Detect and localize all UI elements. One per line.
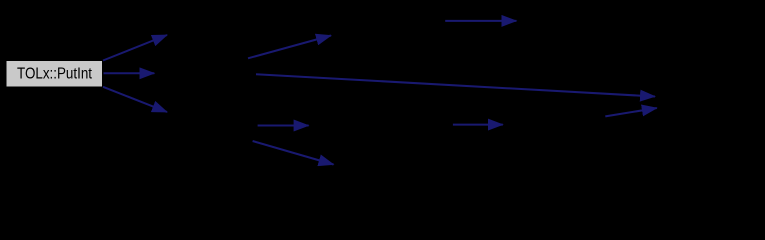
svg-text:TOLx::PutInt: TOLx::PutInt xyxy=(17,65,92,82)
